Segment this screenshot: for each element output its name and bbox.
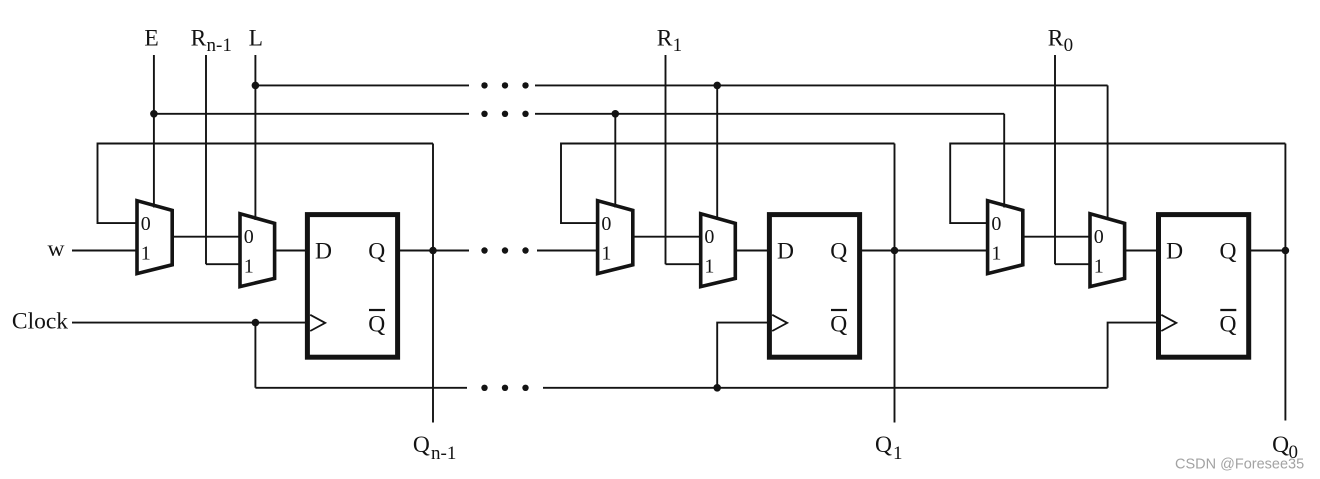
- svg-text:R: R: [191, 26, 207, 52]
- svg-text:Q: Q: [1272, 432, 1289, 458]
- wire Q output stage n-1: [398, 250, 469, 252]
- wire w input: [72, 250, 137, 252]
- svg-text:Q: Q: [830, 239, 847, 265]
- svg-text:0: 0: [244, 226, 254, 248]
- mux U1 stage n-1: [137, 201, 172, 274]
- wire R0 to mux2 input 1: [1055, 263, 1090, 265]
- mux U4 stage 1: [701, 214, 736, 287]
- svg-text:Clock: Clock: [12, 309, 68, 335]
- junction dot node Q0: [1282, 247, 1290, 255]
- svg-text:E: E: [144, 26, 158, 52]
- wire L bus segment 2: [535, 84, 1108, 86]
- wire E vertical stage n-1: [153, 55, 155, 208]
- svg-text:Q: Q: [830, 312, 847, 338]
- wire node Q1 vertical: [894, 144, 896, 423]
- wire feedback stage 0: [950, 144, 1285, 224]
- ellipsis dots E bus: [481, 111, 528, 117]
- wire mux U3 output to mux U4 input 0: [633, 236, 701, 238]
- wire mux U2 output to D: [275, 250, 308, 252]
- wire clock riser stage 0: [1108, 323, 1159, 388]
- svg-text:Q: Q: [368, 239, 385, 265]
- svg-text:1: 1: [141, 243, 151, 265]
- junction dot E bus: [150, 110, 158, 118]
- wire clock bus segment 1: [255, 387, 467, 389]
- junction dot node Q1: [891, 247, 899, 255]
- wire R1 to mux2 input 1: [666, 263, 701, 265]
- svg-text:0: 0: [704, 226, 714, 248]
- FF 0 clock triangle: [1161, 315, 1176, 331]
- mux U3 stage 1: [598, 201, 633, 274]
- svg-text:Q: Q: [413, 432, 430, 458]
- wire Q output stage 0: [1249, 250, 1286, 252]
- svg-text:1: 1: [244, 256, 254, 278]
- wire R0 vertical: [1054, 55, 1056, 264]
- mux U5 stage 0: [988, 201, 1023, 274]
- wire L bus segment 1: [255, 84, 469, 86]
- svg-text:D: D: [315, 239, 332, 265]
- junction dot node Qn-1: [429, 247, 437, 255]
- wire E bus segment 2: [535, 113, 1004, 115]
- wire Rn-1 to mux2 input 1: [206, 263, 240, 265]
- junction dot E select stage 1: [612, 110, 620, 118]
- flip-flop FF n-1: [307, 215, 397, 358]
- svg-text:1: 1: [673, 35, 683, 56]
- svg-text:Q: Q: [368, 312, 385, 338]
- wire E bus segment 1: [154, 113, 469, 115]
- ellipsis dots L bus: [481, 82, 528, 88]
- svg-text:0: 0: [601, 213, 611, 235]
- wire clock drop stage n-1: [254, 323, 256, 388]
- svg-text:n-1: n-1: [207, 35, 232, 56]
- svg-text:L: L: [249, 26, 263, 52]
- wire Q output stage 1 to stage 0: [860, 250, 988, 252]
- mux U6 stage 0: [1090, 214, 1125, 287]
- ellipsis dots clock bus: [481, 385, 528, 391]
- wire R1 vertical: [665, 55, 667, 264]
- wire clock riser stage 1: [717, 323, 769, 388]
- wire L vertical stage n-1: [254, 55, 256, 220]
- wire L select stage 0: [1107, 85, 1109, 220]
- wire Rn-1 vertical: [205, 55, 207, 264]
- svg-text:R: R: [1048, 26, 1064, 52]
- FF 0 Qbar overbar: [1220, 309, 1236, 311]
- junction dot L bus: [252, 82, 260, 90]
- svg-text:CSDN @Foresee35: CSDN @Foresee35: [1175, 457, 1304, 473]
- junction dot L select stage 1: [713, 82, 721, 90]
- svg-text:1: 1: [704, 256, 714, 278]
- wire mux U5 output to mux U6 input 0: [1023, 236, 1090, 238]
- wire mux U6 output to D: [1125, 250, 1159, 252]
- junction dot clock stage n-1: [252, 319, 260, 327]
- svg-text:Q: Q: [1220, 312, 1237, 338]
- wire node Q0 vertical: [1284, 144, 1286, 421]
- FF n-1 clock triangle: [310, 315, 325, 331]
- wire mux U4 output to D: [735, 250, 769, 252]
- svg-text:D: D: [777, 239, 794, 265]
- svg-text:0: 0: [141, 213, 151, 235]
- svg-text:1: 1: [991, 243, 1001, 265]
- wire mux U1 output to mux U2 input 0: [172, 236, 240, 238]
- svg-text:1: 1: [893, 443, 903, 464]
- svg-text:R: R: [657, 26, 673, 52]
- wire E select stage 1: [614, 114, 616, 208]
- junction dot clock stage 1: [713, 384, 721, 392]
- svg-text:0: 0: [991, 213, 1001, 235]
- svg-text:n-1: n-1: [431, 443, 456, 464]
- svg-text:1: 1: [1094, 256, 1104, 278]
- mux U2 stage n-1: [240, 214, 275, 287]
- wire node Qn-1 vertical: [432, 144, 434, 423]
- FF n-1 Qbar overbar: [369, 309, 385, 311]
- ellipsis dots shift chain: [481, 247, 528, 253]
- wire clock bus segment 2: [543, 387, 1108, 389]
- svg-text:0: 0: [1064, 35, 1074, 56]
- svg-text:w: w: [48, 236, 65, 262]
- svg-text:Q: Q: [1220, 239, 1237, 265]
- wire Clock input: [72, 322, 307, 324]
- wire feedback horizontal stage n-1: [98, 144, 434, 224]
- svg-text:D: D: [1166, 239, 1183, 265]
- wire feedback stage 1: [561, 144, 895, 224]
- FF 1 clock triangle: [772, 315, 787, 331]
- wire E select stage 0: [1003, 114, 1005, 208]
- svg-text:0: 0: [1094, 226, 1104, 248]
- flip-flop FF 1: [769, 215, 859, 358]
- flip-flop FF 0: [1159, 215, 1249, 358]
- wire L select stage 1: [716, 85, 718, 220]
- wire shift chain into stage 1: [537, 250, 598, 252]
- FF 1 Qbar overbar: [831, 309, 847, 311]
- svg-text:Q: Q: [875, 432, 892, 458]
- svg-text:1: 1: [601, 243, 611, 265]
